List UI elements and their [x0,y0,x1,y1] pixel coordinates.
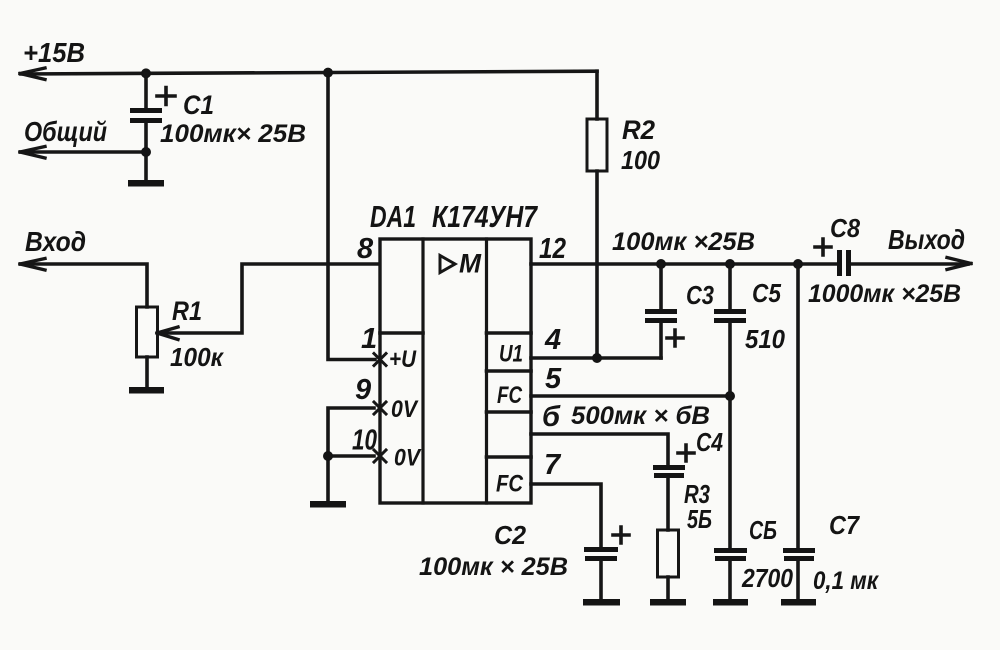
resistor R2 [587,119,607,171]
svg-text:C7: C7 [829,510,860,540]
wire pin 10 to ground net [328,456,374,501]
ground R3 [650,599,686,606]
svg-text:100мк × 25В: 100мк × 25В [419,553,568,581]
wire Общий [21,150,146,154]
node junction dot Общий/C1 [141,147,151,157]
wire rail corner to R2 [595,71,599,119]
resistor R1 (potentiometer) [137,307,158,357]
svg-text:б: б [542,401,561,433]
ground pins 9/10 [310,501,346,508]
svg-text:100мк× 25В: 100мк× 25В [160,120,306,148]
ground C7 [781,599,816,606]
svg-text:12: 12 [539,233,566,265]
wire pin 9 to ground net [328,408,374,456]
capacitor C5 [714,264,746,396]
svg-text:M: M [459,249,481,279]
wire pin 6 [531,434,668,465]
node arrowhead Вход [20,259,45,271]
node junction dot C5 [725,259,735,269]
svg-text:Выход: Выход [888,224,965,255]
capacitor C4 [653,445,694,530]
node junction dot rail/pin1 wire [323,68,333,78]
resistor R3 [658,530,679,577]
node wiper arrowhead [157,327,178,340]
ground R1 [129,387,164,394]
op-amp DA1 right strip cell dividers [487,333,532,457]
svg-text:100мк ×25В: 100мк ×25В [612,228,755,256]
node junction dot pin10 net [323,451,333,461]
svg-text:5: 5 [545,363,562,395]
capacitor C3 [645,264,683,358]
ground C2 [583,599,620,606]
svg-text:+15В: +15В [23,37,85,68]
wire input [21,264,147,307]
wire R1 wiper to pin 8 [160,264,377,333]
svg-text:2700: 2700 [741,563,793,593]
svg-text:5Б: 5Б [687,504,712,534]
ground C6 [713,599,748,606]
svg-text:C4: C4 [696,427,723,457]
svg-text:U1: U1 [499,341,523,368]
op-amp DA1 К174УН7 outline [380,239,531,503]
svg-text:C3: C3 [686,280,714,310]
capacitor C2 [584,527,629,599]
wire +15V rail [21,71,597,74]
svg-text:FC: FC [496,471,524,498]
node junction dot C5/C6/pin5 [725,391,735,401]
svg-text:C1: C1 [183,90,214,120]
node junction dot C3 [656,259,666,269]
pin 1 X marker [374,354,386,366]
ground C1 [128,180,164,187]
node arrowhead Выход [947,258,971,270]
svg-text:0,1 мк: 0,1 мк [813,567,879,595]
node junction dot C7 [793,259,803,269]
svg-text:510: 510 [745,324,785,354]
capacitor C8 [815,239,851,276]
wire pin 4 [531,356,661,360]
wire pin 7 [531,484,601,547]
svg-text:СБ: СБ [749,515,777,545]
svg-text:9: 9 [355,374,371,406]
svg-text:7: 7 [544,449,562,481]
op-amp DA1 inner divider left [421,239,424,503]
wire pin 5 [531,394,730,398]
op-amp DA1 inner divider right [485,239,488,503]
wire R1 bottom lead [145,357,149,387]
capacitor C1 [130,73,175,180]
wire +15V to pin 1 [328,73,375,360]
svg-text:C8: C8 [830,213,860,243]
svg-text:R2: R2 [622,115,655,145]
wire output to arrow [851,262,968,266]
svg-text:Общий: Общий [24,116,107,147]
op-amp DA1 left strip cell divider [380,331,423,335]
wire R2 lower lead [595,171,599,358]
svg-text:8: 8 [357,233,374,265]
wire R3 bottom lead [666,577,670,599]
svg-text:100: 100 [621,145,660,175]
svg-text:1: 1 [361,323,377,355]
svg-text:+U: +U [389,346,417,373]
capacitor C6 [714,548,747,599]
svg-text:R1: R1 [172,296,202,326]
svg-text:100к: 100к [170,342,225,372]
svg-text:0V: 0V [394,445,422,472]
node junction dot R2/pin4 [592,353,602,363]
pin 9 X marker [374,402,386,414]
node arrowhead Общий [20,147,45,159]
wire output to C7 [796,264,800,548]
node arrowhead +15V [20,68,45,80]
symbol amplifier triangle M [440,256,455,273]
svg-text:0V: 0V [391,396,419,423]
svg-text:FC: FC [497,382,523,409]
svg-text:10: 10 [352,425,377,457]
capacitor C7 [783,548,815,599]
svg-text:500мк × бВ: 500мк × бВ [571,402,710,430]
wire output pin 12 [531,262,836,266]
wire C5 to C6 [728,396,732,548]
svg-text:К174УН7: К174УН7 [432,199,538,234]
pin 10 X marker [374,450,386,462]
svg-text:1000мк ×25В: 1000мк ×25В [808,280,961,308]
svg-text:DA1: DA1 [370,199,416,234]
svg-text:4: 4 [544,324,561,356]
svg-text:C5: C5 [752,278,781,308]
node junction dot C1/rail [141,68,151,78]
svg-text:C2: C2 [494,520,527,550]
svg-text:Вход: Вход [25,226,86,257]
